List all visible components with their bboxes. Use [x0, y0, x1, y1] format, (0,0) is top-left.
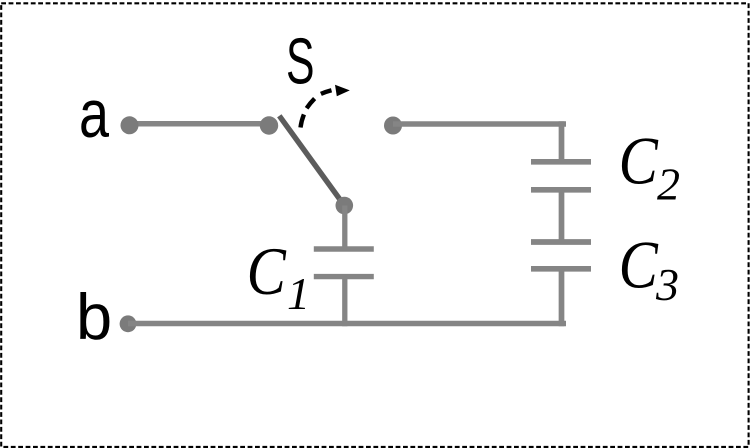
capacitor C1	[314, 249, 374, 277]
capacitor C2	[531, 162, 591, 190]
svg-text:3: 3	[655, 259, 679, 310]
terminal b dot	[120, 315, 137, 332]
junction switch pivot dot	[260, 116, 278, 134]
svg-text:a: a	[79, 76, 109, 152]
svg-text:1: 1	[287, 268, 310, 319]
switch S blade	[279, 116, 344, 206]
svg-text:C: C	[619, 123, 659, 199]
wire C1 to bottom rail	[342, 277, 347, 327]
wire a to switch pivot	[130, 121, 269, 127]
svg-text:C: C	[619, 227, 659, 303]
wire C2 to C3	[559, 190, 565, 242]
capacitor C2 label	[619, 123, 680, 210]
svg-text:2: 2	[657, 159, 680, 210]
capacitor C3 label	[619, 227, 679, 310]
capacitor C1 label	[247, 233, 310, 319]
terminal a dot	[121, 116, 139, 134]
wire right branch top	[393, 121, 566, 127]
switch S arrow	[301, 85, 350, 128]
wire switch to C1	[342, 206, 347, 250]
svg-text:C: C	[247, 233, 287, 309]
node right branch dot	[384, 117, 402, 135]
svg-text:S: S	[286, 25, 315, 98]
svg-text:b: b	[76, 280, 112, 353]
wire bottom rail	[128, 321, 566, 327]
wire C3 to bottom rail	[559, 269, 565, 326]
capacitor C3	[531, 242, 591, 269]
switch throw dot	[336, 197, 354, 215]
